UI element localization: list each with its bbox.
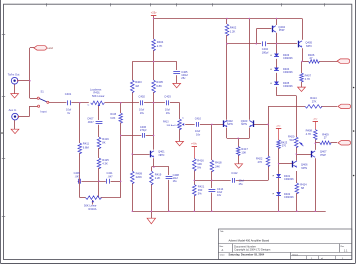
- svg-text:C412: C412: [231, 171, 238, 175]
- svg-text:25v: 25v: [181, 76, 186, 80]
- svg-text:.047: .047: [75, 174, 81, 178]
- svg-text:16v: 16v: [173, 179, 178, 183]
- svg-text:R421: R421: [198, 185, 205, 189]
- svg-text:Q403: Q403: [241, 119, 248, 123]
- svg-text:nc: nc: [87, 104, 89, 106]
- svg-text:10K: 10K: [241, 150, 246, 154]
- svg-text:R417: R417: [241, 147, 248, 151]
- svg-text:10uf: 10uf: [165, 107, 170, 111]
- svg-text:PNP: PNP: [320, 153, 326, 157]
- svg-text:4.7K: 4.7K: [306, 132, 312, 136]
- svg-text:10uf: 10uf: [139, 107, 144, 111]
- svg-text:180pf: 180pf: [262, 51, 269, 55]
- svg-text:R402: R402: [230, 26, 237, 30]
- svg-text:270pf: 270pf: [140, 128, 147, 132]
- svg-text:Land: Land: [47, 46, 53, 50]
- svg-text:CR2036: CR2036: [283, 84, 293, 88]
- svg-text:Input: Input: [41, 109, 47, 113]
- svg-text:50K Linear: 50K Linear: [92, 94, 105, 98]
- svg-text:C407: C407: [87, 117, 94, 121]
- svg-text:1.1: 1.1: [344, 248, 348, 252]
- svg-text:R413: R413: [163, 122, 169, 124]
- svg-text:Copyright (c) 2004 LTJ Designs: Copyright (c) 2004 LTJ Designs: [234, 248, 271, 252]
- svg-text:6.8M: 6.8M: [83, 145, 90, 149]
- svg-text:S1: S1: [41, 90, 45, 94]
- svg-text:220K: 220K: [136, 175, 142, 179]
- svg-text:A: A: [222, 248, 224, 252]
- svg-text:Date:: Date:: [220, 254, 226, 257]
- svg-text:390: 390: [198, 188, 203, 192]
- svg-text:+25v: +25v: [151, 10, 157, 14]
- svg-text:R422: R422: [256, 156, 263, 160]
- svg-text:C403: C403: [164, 94, 171, 98]
- svg-text:R425: R425: [102, 158, 109, 162]
- svg-text:R419: R419: [155, 172, 162, 176]
- svg-text:10K: 10K: [197, 162, 202, 166]
- svg-text:C410: C410: [195, 116, 202, 120]
- svg-text:R409: R409: [136, 171, 143, 175]
- svg-text:PNP: PNP: [279, 28, 285, 32]
- svg-text:24K: 24K: [215, 164, 220, 168]
- svg-text:R401: R401: [94, 90, 101, 94]
- svg-text:To/fm Out: To/fm Out: [8, 72, 20, 76]
- svg-text:R410A: R410A: [89, 207, 97, 211]
- svg-text:27: 27: [310, 56, 313, 60]
- svg-text:10uf: 10uf: [66, 107, 71, 111]
- svg-text:8K: 8K: [102, 141, 105, 145]
- svg-text:NPN: NPN: [306, 44, 312, 48]
- svg-text:.047: .047: [108, 174, 114, 178]
- svg-text:5%: 5%: [197, 165, 201, 169]
- svg-text:5%: 5%: [198, 191, 202, 195]
- svg-text:+4.8v: +4.8v: [191, 144, 198, 146]
- svg-text:NPN: NPN: [301, 166, 307, 170]
- svg-text:NPN: NPN: [227, 122, 233, 126]
- svg-text:R414: R414: [310, 96, 317, 100]
- svg-text:16v: 16v: [166, 111, 171, 115]
- svg-text:C402: C402: [139, 95, 146, 99]
- svg-text:R420: R420: [288, 134, 295, 138]
- svg-text:25v: 25v: [239, 182, 244, 186]
- svg-text:R403: R403: [135, 80, 142, 84]
- svg-text:4.7K: 4.7K: [305, 77, 311, 81]
- svg-text:nc: nc: [182, 117, 184, 119]
- svg-text:CR2036: CR2036: [283, 70, 293, 74]
- svg-text:Advent Model 400 Amplifier Boa: Advent Model 400 Amplifier Board: [229, 238, 270, 242]
- svg-text:33K Aud Log: 33K Aud Log: [166, 124, 179, 127]
- svg-text:R416: R416: [197, 159, 204, 163]
- svg-text:Sheet: Sheet: [292, 253, 298, 256]
- svg-text:2.2K: 2.2K: [155, 176, 161, 180]
- svg-text:.0047: .0047: [87, 120, 94, 124]
- svg-text:R418: R418: [215, 161, 222, 165]
- svg-text:1.2K: 1.2K: [230, 29, 236, 33]
- svg-text:NPN: NPN: [241, 122, 247, 126]
- svg-text:470: 470: [258, 160, 263, 164]
- svg-text:2.7K: 2.7K: [157, 44, 163, 48]
- svg-text:Rev: Rev: [341, 246, 345, 248]
- svg-text:4.3K: 4.3K: [102, 162, 108, 166]
- svg-text:6.8K: 6.8K: [156, 84, 162, 88]
- svg-text:C401: C401: [65, 92, 72, 96]
- svg-text:CR2036: CR2036: [284, 195, 294, 199]
- svg-text:R415: R415: [110, 113, 116, 116]
- svg-text:16v: 16v: [140, 111, 145, 115]
- svg-text:27K: 27K: [312, 100, 317, 104]
- svg-text:27: 27: [324, 135, 327, 139]
- svg-text:CR2036: CR2036: [284, 177, 294, 181]
- svg-text:16v: 16v: [196, 133, 201, 137]
- svg-text:510: 510: [290, 138, 295, 142]
- svg-text:Q405: Q405: [305, 40, 312, 44]
- svg-text:Q406: Q406: [301, 163, 308, 167]
- svg-text:R411: R411: [83, 142, 90, 146]
- svg-text:Saturday, December 03, 2004: Saturday, December 03, 2004: [229, 253, 265, 257]
- svg-text:Q401: Q401: [158, 150, 165, 154]
- svg-text:R424: R424: [300, 182, 307, 186]
- svg-text:6.8K: 6.8K: [110, 117, 115, 120]
- svg-text:68: 68: [301, 186, 304, 190]
- svg-text:Q404: Q404: [278, 25, 285, 29]
- svg-text:CR2036: CR2036: [283, 56, 293, 60]
- svg-text:Aux In: Aux In: [9, 108, 17, 112]
- svg-text:NPN: NPN: [159, 153, 165, 157]
- svg-text:R405: R405: [156, 80, 163, 84]
- svg-text:Q402: Q402: [226, 119, 233, 123]
- svg-text:270: 270: [282, 144, 287, 148]
- svg-text:Q407: Q407: [320, 150, 327, 154]
- svg-text:R416: R416: [102, 137, 109, 141]
- svg-text:R407: R407: [305, 73, 312, 77]
- svg-text:10uf: 10uf: [195, 129, 200, 133]
- svg-text:R404: R404: [157, 40, 164, 44]
- svg-text:16v: 16v: [217, 193, 222, 197]
